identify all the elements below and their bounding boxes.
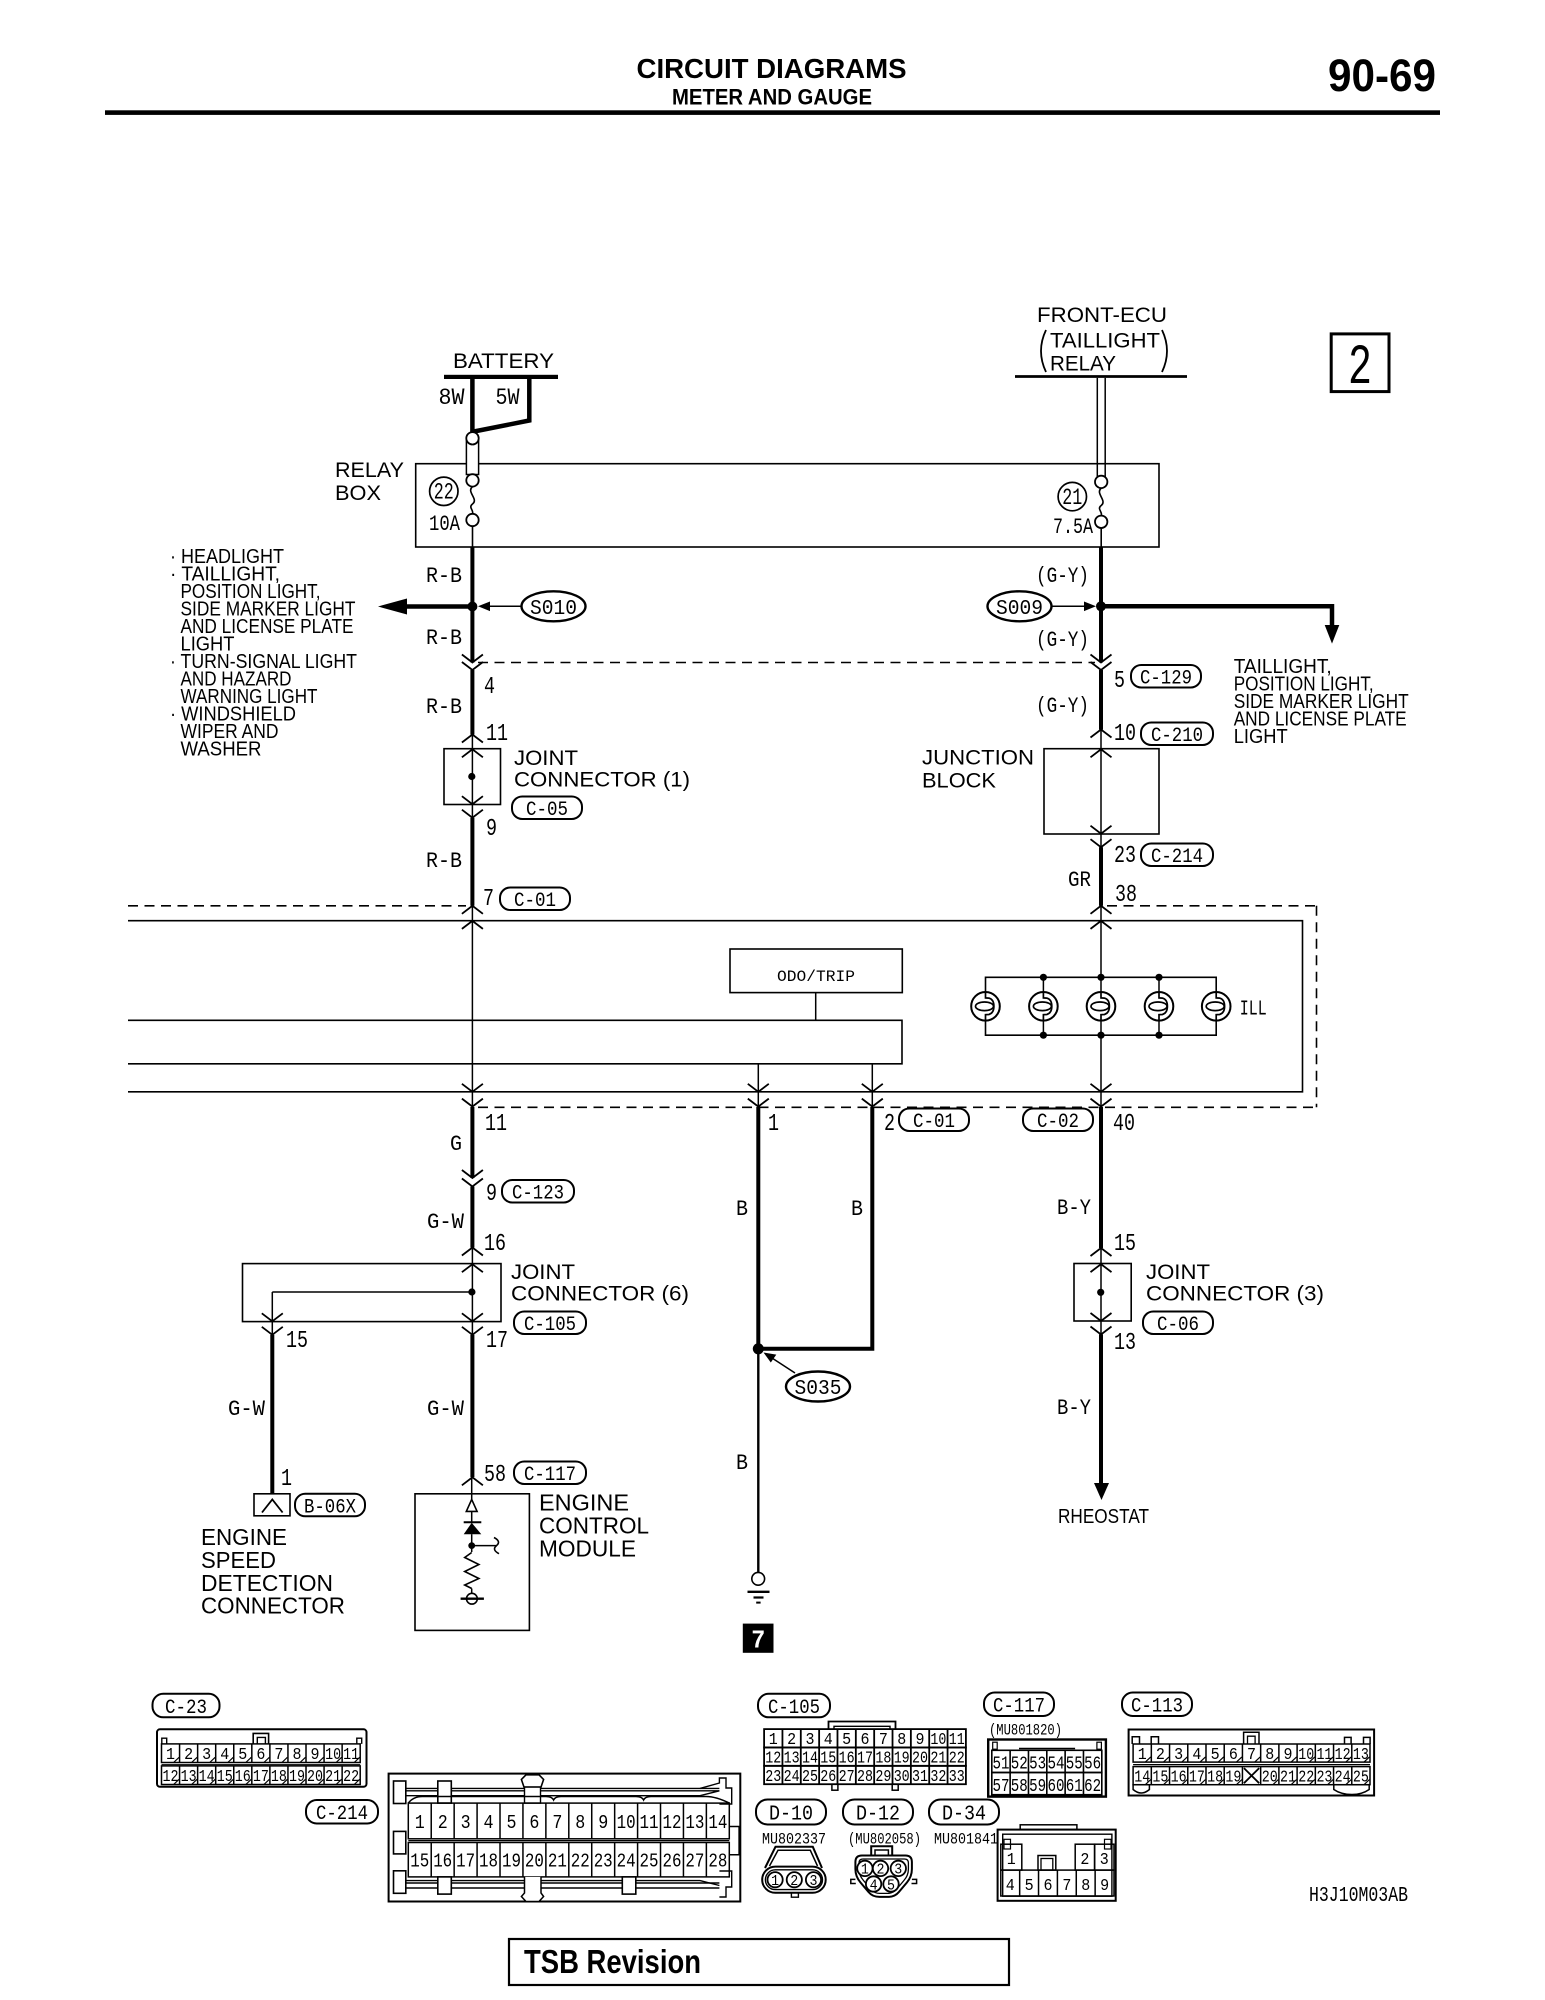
svg-text:11: 11	[486, 721, 508, 748]
svg-text:24: 24	[617, 1851, 636, 1873]
svg-text:21: 21	[1280, 1768, 1296, 1787]
svg-text:C-105: C-105	[524, 1314, 576, 1337]
svg-text:4: 4	[484, 674, 495, 701]
connector label C-214 stadium	[1141, 844, 1213, 867]
joint connector 6 box	[243, 1264, 502, 1322]
svg-text:1: 1	[281, 1466, 292, 1493]
arrow from S035 to node	[772, 1358, 795, 1373]
svg-text:4: 4	[484, 1812, 494, 1834]
taillight destination text	[1234, 656, 1409, 748]
svg-text:10: 10	[617, 1812, 636, 1834]
destination list headlight taillight etc	[170, 546, 357, 761]
svg-text:(G-Y): (G-Y)	[1036, 694, 1089, 719]
connector C-23 pinout	[157, 1729, 367, 1787]
svg-text:5: 5	[887, 1877, 895, 1894]
svg-text:METER AND GAUGE: METER AND GAUGE	[672, 85, 872, 110]
svg-text:38: 38	[1115, 882, 1137, 909]
relay box	[416, 464, 1159, 547]
svg-text:23: 23	[765, 1768, 781, 1787]
connector label C-01 stadium upper	[500, 888, 570, 911]
node S035 junction dot	[753, 1343, 764, 1354]
connector label D-12 stadium	[843, 1800, 913, 1825]
svg-text:RELAY: RELAY	[335, 459, 404, 482]
wire GR to pin 38	[1099, 847, 1103, 906]
svg-text:15: 15	[286, 1328, 308, 1355]
svg-text:31: 31	[912, 1768, 928, 1787]
svg-text:CONNECTOR (6): CONNECTOR (6)	[511, 1283, 689, 1306]
inline connector chevrons pin 4	[462, 655, 483, 663]
connector C-117 pinout	[988, 1740, 1106, 1797]
svg-text:9: 9	[1100, 1877, 1109, 1896]
svg-text:24: 24	[784, 1768, 800, 1787]
svg-text:58: 58	[1011, 1777, 1028, 1797]
ground symbol	[748, 1572, 770, 1602]
svg-text:13: 13	[1353, 1746, 1369, 1765]
svg-text:G: G	[450, 1132, 462, 1157]
svg-text:C-02: C-02	[1037, 1111, 1079, 1134]
svg-text:56: 56	[1084, 1755, 1101, 1775]
svg-text:CONNECTOR: CONNECTOR	[201, 1593, 345, 1619]
svg-text:17: 17	[456, 1851, 475, 1873]
ODO/TRIP box	[730, 949, 902, 993]
svg-text:C-113: C-113	[1131, 1695, 1183, 1718]
svg-text:19: 19	[502, 1851, 521, 1873]
svg-text:S035: S035	[795, 1378, 842, 1401]
svg-text:C-01: C-01	[913, 1111, 955, 1134]
svg-text:C-214: C-214	[316, 1803, 368, 1826]
svg-text:CONNECTOR (1): CONNECTOR (1)	[514, 769, 690, 792]
svg-text:2: 2	[1080, 1851, 1089, 1870]
svg-text:60: 60	[1047, 1777, 1064, 1797]
svg-text:B: B	[736, 1197, 748, 1222]
svg-text:15: 15	[1152, 1768, 1168, 1787]
svg-text:5: 5	[1114, 668, 1125, 695]
ILL rail junction dots	[1040, 974, 1047, 981]
svg-text:B: B	[736, 1451, 748, 1476]
svg-text:25: 25	[802, 1768, 818, 1787]
svg-text:R-B: R-B	[426, 626, 462, 651]
svg-text:CONNECTOR (3): CONNECTOR (3)	[1146, 1283, 1324, 1306]
svg-text:28: 28	[857, 1768, 873, 1787]
junction block exit chevrons pin 23	[1091, 826, 1112, 834]
fuse 21 symbol	[1095, 476, 1107, 547]
svg-text:29: 29	[875, 1768, 891, 1787]
svg-text:B-Y: B-Y	[1057, 1396, 1091, 1421]
svg-text:1: 1	[771, 1873, 779, 1890]
dashed meter boundary right segment	[1107, 905, 1317, 907]
connector label D-10 stadium	[756, 1800, 826, 1825]
svg-text:10A: 10A	[429, 512, 461, 537]
svg-text:5W: 5W	[496, 385, 520, 411]
connector label C-23 stadium	[153, 1694, 220, 1718]
arrow from S009 to node	[1052, 605, 1088, 607]
node S010 junction dot	[467, 602, 477, 612]
svg-text:ILL: ILL	[1240, 999, 1267, 1022]
svg-text:10: 10	[325, 1746, 341, 1765]
svg-text:17: 17	[253, 1768, 269, 1787]
svg-text:51: 51	[992, 1755, 1009, 1775]
junction block box	[1044, 749, 1159, 834]
connector label C-117 stadium upper	[514, 1462, 586, 1485]
svg-text:R-B: R-B	[426, 695, 462, 720]
wire R-B into joint connector 1	[470, 670, 474, 735]
svg-text:C-214: C-214	[1151, 846, 1203, 869]
svg-text:BATTERY: BATTERY	[453, 350, 554, 373]
dashed meter boundary bottom	[478, 1106, 1317, 1108]
svg-text:D-10: D-10	[769, 1804, 813, 1827]
svg-text:52: 52	[1011, 1755, 1028, 1775]
ILL lamp 5	[1202, 992, 1231, 1021]
svg-text:7: 7	[552, 1812, 562, 1834]
wire B-Y to rheostat	[1099, 1335, 1103, 1485]
splice label S035	[786, 1372, 850, 1402]
svg-text:12: 12	[662, 1812, 681, 1834]
svg-text:6: 6	[1043, 1877, 1052, 1896]
svg-text:26: 26	[662, 1851, 681, 1873]
meter exit chevrons pin 11	[462, 1084, 483, 1092]
svg-text:C-123: C-123	[512, 1182, 564, 1205]
meter internal wires to pins 1 and 2	[757, 1064, 759, 1107]
svg-text:61: 61	[1066, 1777, 1083, 1797]
front-ecu twin leads	[1096, 378, 1098, 477]
svg-text:22: 22	[343, 1768, 359, 1787]
front-ecu underline	[1015, 375, 1187, 378]
svg-text:4: 4	[1006, 1877, 1015, 1896]
svg-text:17: 17	[1189, 1768, 1205, 1787]
svg-text:2: 2	[877, 1862, 885, 1879]
svg-text:MODULE: MODULE	[539, 1536, 636, 1562]
wire G-W right branch	[470, 1335, 474, 1477]
svg-text:1: 1	[861, 1862, 869, 1879]
meter entry chevrons pin 38	[1091, 906, 1112, 914]
svg-text:57: 57	[992, 1777, 1009, 1797]
svg-text:11: 11	[485, 1111, 507, 1138]
dashed meter boundary right vertical	[1316, 906, 1318, 1108]
svg-text:20: 20	[525, 1851, 544, 1873]
svg-text:10: 10	[1114, 721, 1136, 748]
joint connector 3 exit chevrons pin 13	[1091, 1313, 1112, 1321]
svg-text:55: 55	[1066, 1755, 1083, 1775]
svg-text:LIGHT: LIGHT	[1234, 726, 1288, 748]
connector label C-105 stadium 2	[758, 1694, 830, 1718]
meter internal band	[128, 1020, 902, 1064]
svg-text:RELAY: RELAY	[1050, 353, 1116, 376]
svg-text:BLOCK: BLOCK	[922, 770, 996, 793]
svg-text:27: 27	[685, 1851, 704, 1873]
meter exit chevrons pin 40	[1091, 1084, 1112, 1092]
svg-text:C-117: C-117	[993, 1695, 1045, 1718]
svg-text:11: 11	[343, 1746, 359, 1765]
arrow to rheostat	[1094, 1483, 1109, 1500]
svg-text:16: 16	[1171, 1768, 1187, 1787]
ILL lamp 2	[1029, 992, 1058, 1021]
svg-text:1: 1	[415, 1812, 425, 1834]
svg-text:1: 1	[768, 1111, 779, 1138]
svg-text:B-Y: B-Y	[1057, 1196, 1091, 1221]
connector D-10 pinout	[762, 1847, 826, 1897]
connector label C-06 stadium	[1143, 1312, 1213, 1335]
svg-text:19: 19	[1225, 1768, 1241, 1787]
svg-text:2: 2	[884, 1111, 895, 1138]
svg-text:90-69: 90-69	[1328, 50, 1436, 101]
svg-text:TSB Revision: TSB Revision	[524, 1943, 701, 1980]
connector chevron pin 10	[1091, 730, 1112, 738]
connector C-105 pinout	[764, 1722, 966, 1791]
joint connector 6 exit chevrons pin 17	[462, 1313, 483, 1321]
fuse 22 number circle	[430, 477, 458, 505]
svg-text:JOINT: JOINT	[1146, 1261, 1210, 1284]
dashed meter boundary left segment	[128, 905, 466, 907]
svg-text:20: 20	[307, 1768, 323, 1787]
combination meter solid box	[128, 921, 1303, 1092]
svg-text:D-12: D-12	[856, 1804, 900, 1827]
svg-text:40: 40	[1113, 1111, 1135, 1138]
ILL lamp 1	[971, 992, 1000, 1021]
svg-text:8W: 8W	[439, 385, 465, 411]
wire B-Y below meter	[1099, 1107, 1103, 1248]
svg-text:22: 22	[571, 1851, 590, 1873]
wire G-W left branch	[270, 1335, 274, 1494]
svg-text:10: 10	[1298, 1746, 1314, 1765]
svg-text:7: 7	[751, 1626, 765, 1656]
svg-text:15: 15	[1114, 1231, 1136, 1258]
connector C-214 pinout	[389, 1774, 741, 1902]
splice label S010	[522, 591, 586, 621]
page reference box 2	[1331, 334, 1389, 392]
svg-text:G-W: G-W	[427, 1210, 465, 1235]
svg-text:21: 21	[1062, 485, 1082, 511]
svg-text:JUNCTION: JUNCTION	[922, 747, 1034, 770]
joint connector 6 exit chevrons pin 15	[262, 1313, 283, 1321]
wire R-B from relay box to node S010	[470, 547, 474, 663]
svg-text:33: 33	[949, 1768, 965, 1787]
svg-text:CIRCUIT DIAGRAMS: CIRCUIT DIAGRAMS	[637, 53, 907, 84]
svg-text:MU801841: MU801841	[934, 1831, 998, 1849]
inline connector chevrons pin 9 C-123	[462, 1170, 483, 1178]
svg-text:19: 19	[289, 1768, 305, 1787]
front-ecu parentheses	[1041, 330, 1046, 372]
wire B to ground	[757, 1349, 759, 1572]
TSB revision box	[509, 1939, 1009, 1985]
svg-text:14: 14	[199, 1768, 215, 1787]
connector label C-105 stadium	[514, 1312, 586, 1335]
svg-text:S010: S010	[530, 598, 577, 621]
svg-text:9: 9	[598, 1812, 608, 1834]
svg-text:27: 27	[839, 1768, 855, 1787]
svg-text:(G-Y): (G-Y)	[1036, 564, 1089, 589]
arrow from S010 to node	[486, 605, 521, 607]
svg-text:H3J10M03AB: H3J10M03AB	[1309, 1885, 1408, 1908]
svg-text:21: 21	[325, 1768, 341, 1787]
svg-text:B-06X: B-06X	[304, 1496, 356, 1519]
fuse 22 symbol	[466, 432, 478, 547]
wire G-Y into junction block	[1099, 670, 1103, 730]
svg-text:C-129: C-129	[1140, 667, 1192, 690]
wire B pin 1 meter	[756, 1107, 760, 1349]
svg-text:G-W: G-W	[228, 1397, 266, 1422]
joint connector 6 internal branch	[272, 1291, 472, 1293]
joint connector 1 box	[444, 749, 501, 805]
svg-text:13: 13	[181, 1768, 197, 1787]
svg-text:6: 6	[529, 1812, 539, 1834]
ecm internal sensor circuit	[461, 1477, 499, 1604]
svg-text:17: 17	[486, 1328, 508, 1355]
svg-text:JOINT: JOINT	[511, 1261, 575, 1284]
svg-text:2: 2	[438, 1812, 448, 1834]
svg-text:(G-Y): (G-Y)	[1036, 628, 1089, 653]
svg-text:16: 16	[433, 1851, 452, 1873]
svg-text:D-34: D-34	[942, 1804, 986, 1827]
branch wire to taillight circuits with arrow	[1101, 604, 1332, 609]
svg-text:S009: S009	[996, 598, 1043, 621]
engine control module label	[539, 1490, 649, 1562]
svg-text:9: 9	[486, 1181, 497, 1208]
connector label C-123	[502, 1180, 574, 1203]
connector label B-06X stadium	[295, 1494, 365, 1517]
svg-text:GR: GR	[1068, 868, 1091, 893]
connector C-113 pinout	[1129, 1730, 1375, 1796]
svg-text:C-06: C-06	[1157, 1314, 1199, 1337]
svg-text:3: 3	[1100, 1851, 1109, 1870]
svg-text:7.5A: 7.5A	[1053, 515, 1094, 540]
fuse 21 number circle	[1058, 482, 1086, 510]
svg-text:8: 8	[575, 1812, 585, 1834]
connector label C-210	[1141, 723, 1213, 746]
svg-text:28: 28	[708, 1851, 727, 1873]
joint connector 3 box	[1074, 1264, 1131, 1322]
connector label C-02 stadium	[1023, 1109, 1093, 1132]
battery lead 8W wire	[470, 379, 475, 433]
svg-text:BOX: BOX	[335, 482, 381, 505]
svg-text:2: 2	[1348, 337, 1372, 401]
ground reference box 7	[743, 1624, 774, 1653]
svg-text:B: B	[851, 1197, 863, 1222]
meter wire 7 internal	[471, 906, 473, 1107]
svg-text:C-105: C-105	[768, 1697, 820, 1720]
svg-text:3: 3	[810, 1873, 818, 1890]
svg-text:RHEOSTAT: RHEOSTAT	[1058, 1506, 1149, 1528]
dashed meter boundary line upper	[478, 662, 1095, 664]
meter exit chevrons pin 2	[862, 1084, 883, 1092]
svg-text:C-210: C-210	[1151, 725, 1203, 748]
svg-text:JOINT: JOINT	[514, 747, 578, 770]
joint connector 1 exit chevrons pin 9	[462, 796, 483, 804]
svg-text:5: 5	[1025, 1877, 1034, 1896]
svg-text:7: 7	[1062, 1877, 1071, 1896]
svg-text:18: 18	[479, 1851, 498, 1873]
svg-text:15: 15	[217, 1768, 233, 1787]
svg-text:15: 15	[410, 1851, 429, 1873]
svg-text:7: 7	[483, 886, 494, 913]
svg-text:23: 23	[1114, 843, 1136, 870]
svg-text:53: 53	[1029, 1755, 1046, 1775]
svg-text:59: 59	[1029, 1777, 1046, 1797]
svg-text:22: 22	[1298, 1768, 1314, 1787]
engine speed detection connector box	[254, 1494, 290, 1516]
svg-text:11: 11	[640, 1812, 659, 1834]
ILL lamp rails	[986, 977, 1217, 1006]
connector label C-05	[512, 797, 582, 820]
connector label D-34 stadium	[929, 1800, 999, 1825]
svg-text:5: 5	[506, 1812, 516, 1834]
splice label S009	[988, 591, 1052, 621]
arrow to headlight circuits	[378, 599, 407, 615]
svg-text:62: 62	[1084, 1777, 1101, 1797]
svg-text:32: 32	[930, 1768, 946, 1787]
connector label C-129	[1131, 665, 1201, 688]
battery bar	[444, 375, 558, 379]
svg-text:R-B: R-B	[426, 849, 462, 874]
svg-text:9: 9	[486, 816, 497, 843]
svg-text:22: 22	[434, 480, 454, 506]
svg-text:WASHER: WASHER	[181, 739, 262, 761]
svg-text:C-23: C-23	[165, 1697, 207, 1720]
ILL lamp 4	[1145, 992, 1174, 1021]
engine control module box	[415, 1494, 529, 1631]
meter entry chevrons pin 7	[462, 906, 483, 914]
svg-text:(MU801820): (MU801820)	[989, 1722, 1062, 1740]
ecm entry chevron pin 58	[462, 1477, 483, 1485]
svg-text:18: 18	[1207, 1768, 1223, 1787]
connector D-34 pinout	[998, 1825, 1116, 1901]
svg-text:4: 4	[870, 1877, 878, 1894]
inline connector chevrons pin 5	[1091, 655, 1112, 663]
svg-text:11: 11	[1316, 1746, 1332, 1765]
connector D-12 pinout	[851, 1846, 917, 1897]
svg-text:23: 23	[1316, 1768, 1332, 1787]
svg-text:58: 58	[484, 1462, 506, 1489]
svg-text:C-117: C-117	[524, 1464, 576, 1487]
svg-text:R-B: R-B	[426, 564, 462, 589]
connector label C-117 stadium 2	[984, 1693, 1054, 1717]
svg-text:G-W: G-W	[427, 1397, 465, 1422]
svg-text:16: 16	[484, 1231, 506, 1258]
svg-text:54: 54	[1047, 1755, 1064, 1775]
svg-text:C-01: C-01	[514, 890, 556, 913]
svg-text:13: 13	[685, 1812, 704, 1834]
battery lead 5W wire	[474, 379, 529, 432]
svg-text:20: 20	[1262, 1768, 1278, 1787]
meter wire GR internal	[1100, 906, 1102, 1107]
svg-text:13: 13	[1114, 1330, 1136, 1357]
header rule	[105, 110, 1440, 115]
svg-text:1: 1	[1007, 1851, 1016, 1870]
ODO/TRIP stub	[815, 993, 817, 1021]
svg-text:2: 2	[790, 1873, 798, 1890]
svg-text:3: 3	[894, 1862, 902, 1879]
svg-text:23: 23	[594, 1851, 613, 1873]
svg-text:14: 14	[708, 1812, 727, 1834]
connector label C-214 stadium 2	[306, 1800, 378, 1824]
svg-text:ODO/TRIP: ODO/TRIP	[777, 968, 855, 986]
svg-text:C-05: C-05	[526, 799, 568, 822]
svg-text:25: 25	[640, 1851, 659, 1873]
wire G-Y from relay box to node S009	[1099, 547, 1103, 663]
svg-text:FRONT-ECU: FRONT-ECU	[1037, 304, 1167, 327]
svg-text:3: 3	[461, 1812, 471, 1834]
connector label C-113 stadium	[1122, 1693, 1192, 1717]
ILL lamp 3	[1087, 992, 1116, 1021]
connector chevron pin 15	[1091, 1248, 1112, 1256]
svg-text:8: 8	[1081, 1877, 1090, 1896]
svg-text:12: 12	[1335, 1746, 1351, 1765]
svg-text:12: 12	[163, 1768, 179, 1787]
wire B pin 2 meter	[762, 1107, 872, 1349]
connector chevron pin 16	[462, 1248, 483, 1256]
svg-text:16: 16	[235, 1768, 251, 1787]
wire G below meter	[470, 1107, 474, 1178]
meter exit chevrons pin 1	[748, 1084, 769, 1092]
